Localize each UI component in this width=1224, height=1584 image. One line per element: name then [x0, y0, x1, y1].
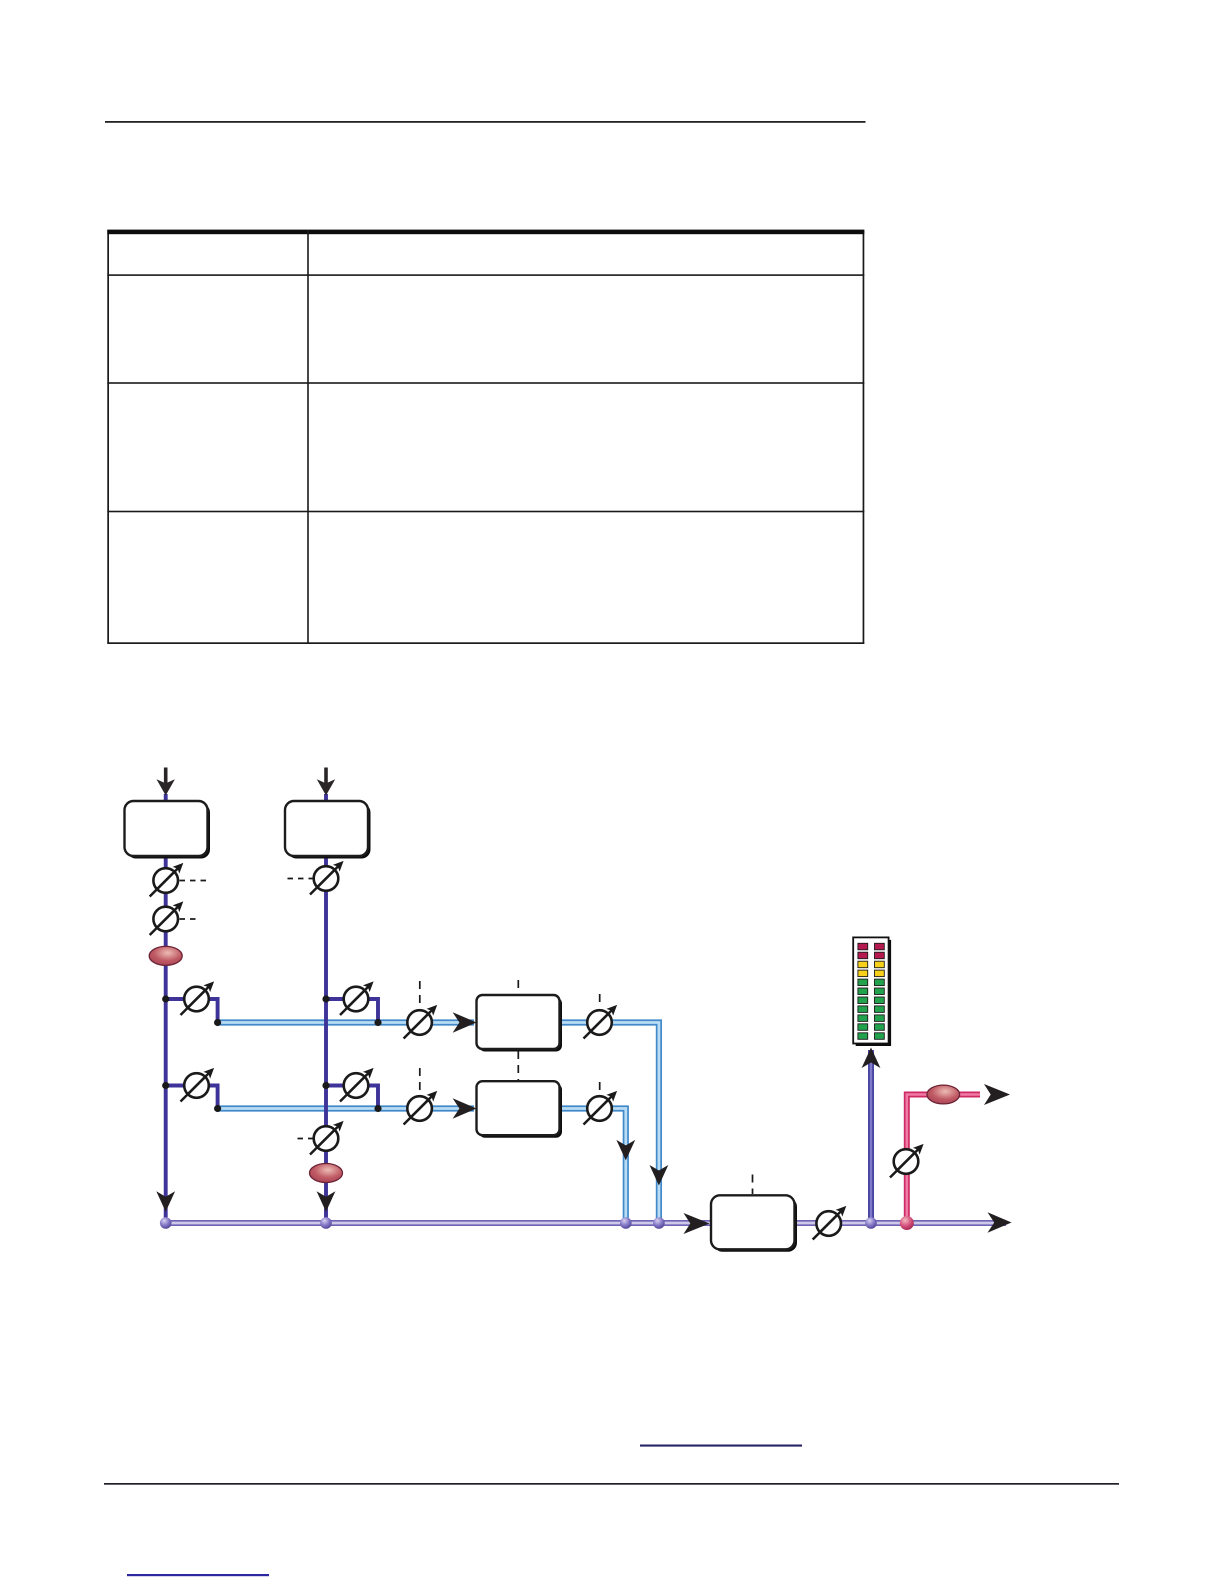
table header row bottom line — [107, 274, 864, 276]
dashed link aux2 master pot — [419, 1068, 421, 1093]
main mix output arrow — [988, 1212, 1012, 1233]
mix bus ball junction ch1 — [160, 1217, 172, 1229]
mix bus ball junction aux1 — [653, 1217, 665, 1229]
junction dot channel1/aux2 — [162, 1082, 169, 1089]
dashed link pot ch1 upper — [180, 880, 207, 882]
mix bus ball junction crimson tap — [900, 1216, 914, 1230]
wire: channel 1 vertical (navy) — [164, 794, 168, 1223]
junction dot channel2/aux1 — [322, 995, 329, 1002]
aux2 send pot channel2 — [340, 1068, 374, 1102]
dashed link aux1 master pot — [419, 981, 421, 1007]
link underline above bottom rule — [640, 1445, 802, 1447]
aux1 return pot — [584, 1005, 618, 1039]
wire: main mix bus (purple pipe) — [166, 1220, 1006, 1226]
up arrow into meter — [862, 1048, 881, 1069]
aux1 master pot — [404, 1005, 438, 1039]
arrow into aux1 processor — [453, 1012, 477, 1033]
down arrow on aux2 return — [616, 1140, 635, 1161]
input arrow channel 2 — [317, 768, 335, 796]
down arrow on aux1 return — [650, 1165, 669, 1186]
table outer left border — [107, 230, 109, 644]
input arrow channel 1 — [157, 768, 175, 796]
down arrow on channel1 wire — [156, 1191, 175, 1212]
wire: aux2 send bus (light blue pipe) — [218, 1109, 626, 1224]
channel 2 input box — [285, 801, 371, 859]
table row line 3 — [107, 511, 864, 513]
dashed link between aux processors — [517, 1051, 519, 1080]
table row line 2 — [107, 382, 864, 384]
table outer right border — [863, 230, 865, 644]
dashed link aux1 processor top — [517, 980, 519, 993]
mix bus ball junction aux2 — [620, 1217, 632, 1229]
dashed link ch2 fader pot — [298, 1138, 315, 1140]
aux1 send pot channel2 — [340, 981, 374, 1015]
mix bus ball junction meter — [865, 1217, 877, 1229]
main mix pot — [813, 1206, 847, 1240]
gain pot channel2 — [310, 861, 344, 895]
dashed link pot ch2 — [288, 878, 313, 880]
crimson output arrow — [984, 1084, 1010, 1105]
master output box — [711, 1195, 797, 1252]
mix bus ball junction ch2 — [320, 1217, 332, 1229]
top horizontal rule — [105, 121, 866, 123]
output LED on crimson line (red ellipse) — [927, 1085, 960, 1104]
aux2 processor box — [477, 1081, 563, 1138]
junction dot aux2 elbow 2 — [374, 1105, 381, 1112]
junction dot aux2 elbow 1 — [214, 1105, 221, 1112]
junction dot channel2/aux2 — [322, 1082, 329, 1089]
junction dot channel1/aux1 — [162, 995, 169, 1002]
junction dot aux1 elbow 2 — [374, 1019, 381, 1026]
wire: aux2 tap elbow channel1 (navy) — [166, 1086, 218, 1109]
aux2 send pot channel1 — [181, 1068, 215, 1102]
dashed link pot ch1 lower — [180, 918, 198, 920]
crimson output pot — [890, 1144, 924, 1178]
gain pot channel1 lower — [150, 901, 184, 935]
overload LED channel 2 (red ellipse) — [310, 1164, 343, 1183]
gain pot channel1 upper — [150, 863, 184, 897]
table bottom border — [107, 642, 864, 644]
wire: aux1 send bus (light blue pipe) — [218, 1023, 659, 1224]
wire: aux2 tap elbow channel2 (navy) — [326, 1086, 378, 1109]
dashed link aux2 return pot — [599, 1082, 601, 1093]
wire: control room / aux out (crimson pipe) — [907, 1095, 980, 1224]
table thick top border — [107, 230, 864, 235]
wire: meter riser (indigo pipe) — [868, 1050, 874, 1223]
wire: channel 2 vertical (navy) — [324, 794, 328, 1223]
arrow into master box — [684, 1213, 710, 1234]
aux1 send pot channel1 — [181, 981, 215, 1015]
overload LED channel 1 (red ellipse) — [149, 946, 182, 965]
channel2 fader pot — [310, 1121, 344, 1155]
junction dot aux1 elbow 1 — [214, 1019, 221, 1026]
aux2 return pot — [584, 1091, 618, 1125]
dashed link aux1 return pot — [599, 994, 601, 1007]
bottom horizontal rule — [104, 1483, 1119, 1485]
channel 1 input box — [125, 801, 211, 859]
wire: aux1 tap elbow channel1 (navy) — [166, 999, 218, 1023]
table column divider — [307, 230, 309, 644]
arrow into aux2 processor — [453, 1098, 477, 1119]
dashed link master box top — [752, 1175, 754, 1195]
level meter bargraph — [853, 937, 891, 1046]
footer link underline — [127, 1574, 269, 1576]
wire: aux1 tap elbow channel2 (navy) — [326, 999, 378, 1023]
aux2 master pot — [404, 1091, 438, 1125]
down arrow on channel2 wire — [317, 1191, 336, 1212]
aux1 processor box — [477, 995, 563, 1052]
